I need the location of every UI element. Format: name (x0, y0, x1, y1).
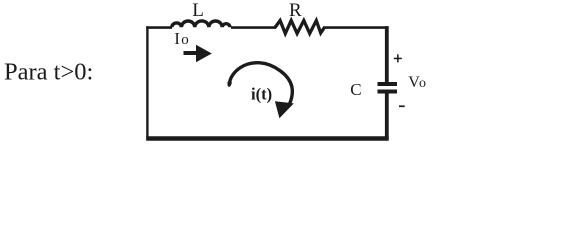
wire top-right segment (323, 26, 389, 29)
arc i(t) current loop (229, 63, 292, 103)
wire right vertical upper (385, 26, 389, 82)
svg-text:Para t>0:: Para t>0: (4, 59, 93, 86)
wire bottom (146, 136, 389, 140)
capacitor C top plate (378, 82, 398, 86)
arc i(t) start hook blob (227, 81, 231, 85)
svg-text:L: L (192, 0, 204, 21)
inductor L (172, 21, 230, 27)
capacitor C bottom plate (378, 90, 398, 94)
wire left vertical (146, 26, 148, 139)
svg-text:I: I (174, 29, 180, 48)
svg-text:o: o (419, 76, 426, 91)
label minus (399, 105, 405, 107)
wire top-left segment (146, 26, 172, 29)
svg-text:o: o (181, 32, 189, 48)
wire right vertical lower (385, 93, 389, 139)
resistor R (275, 21, 324, 34)
arrowhead i(t) (275, 101, 294, 118)
arrow Io head (196, 45, 212, 62)
arrow Io shaft (184, 51, 199, 55)
svg-text:C: C (350, 80, 361, 99)
wire top-middle segment (231, 26, 276, 29)
svg-text:R: R (289, 0, 302, 21)
svg-text:i(t): i(t) (251, 85, 272, 104)
label plus (horizontal bar) (394, 58, 402, 60)
label plus (vertical bar) (397, 54, 399, 62)
